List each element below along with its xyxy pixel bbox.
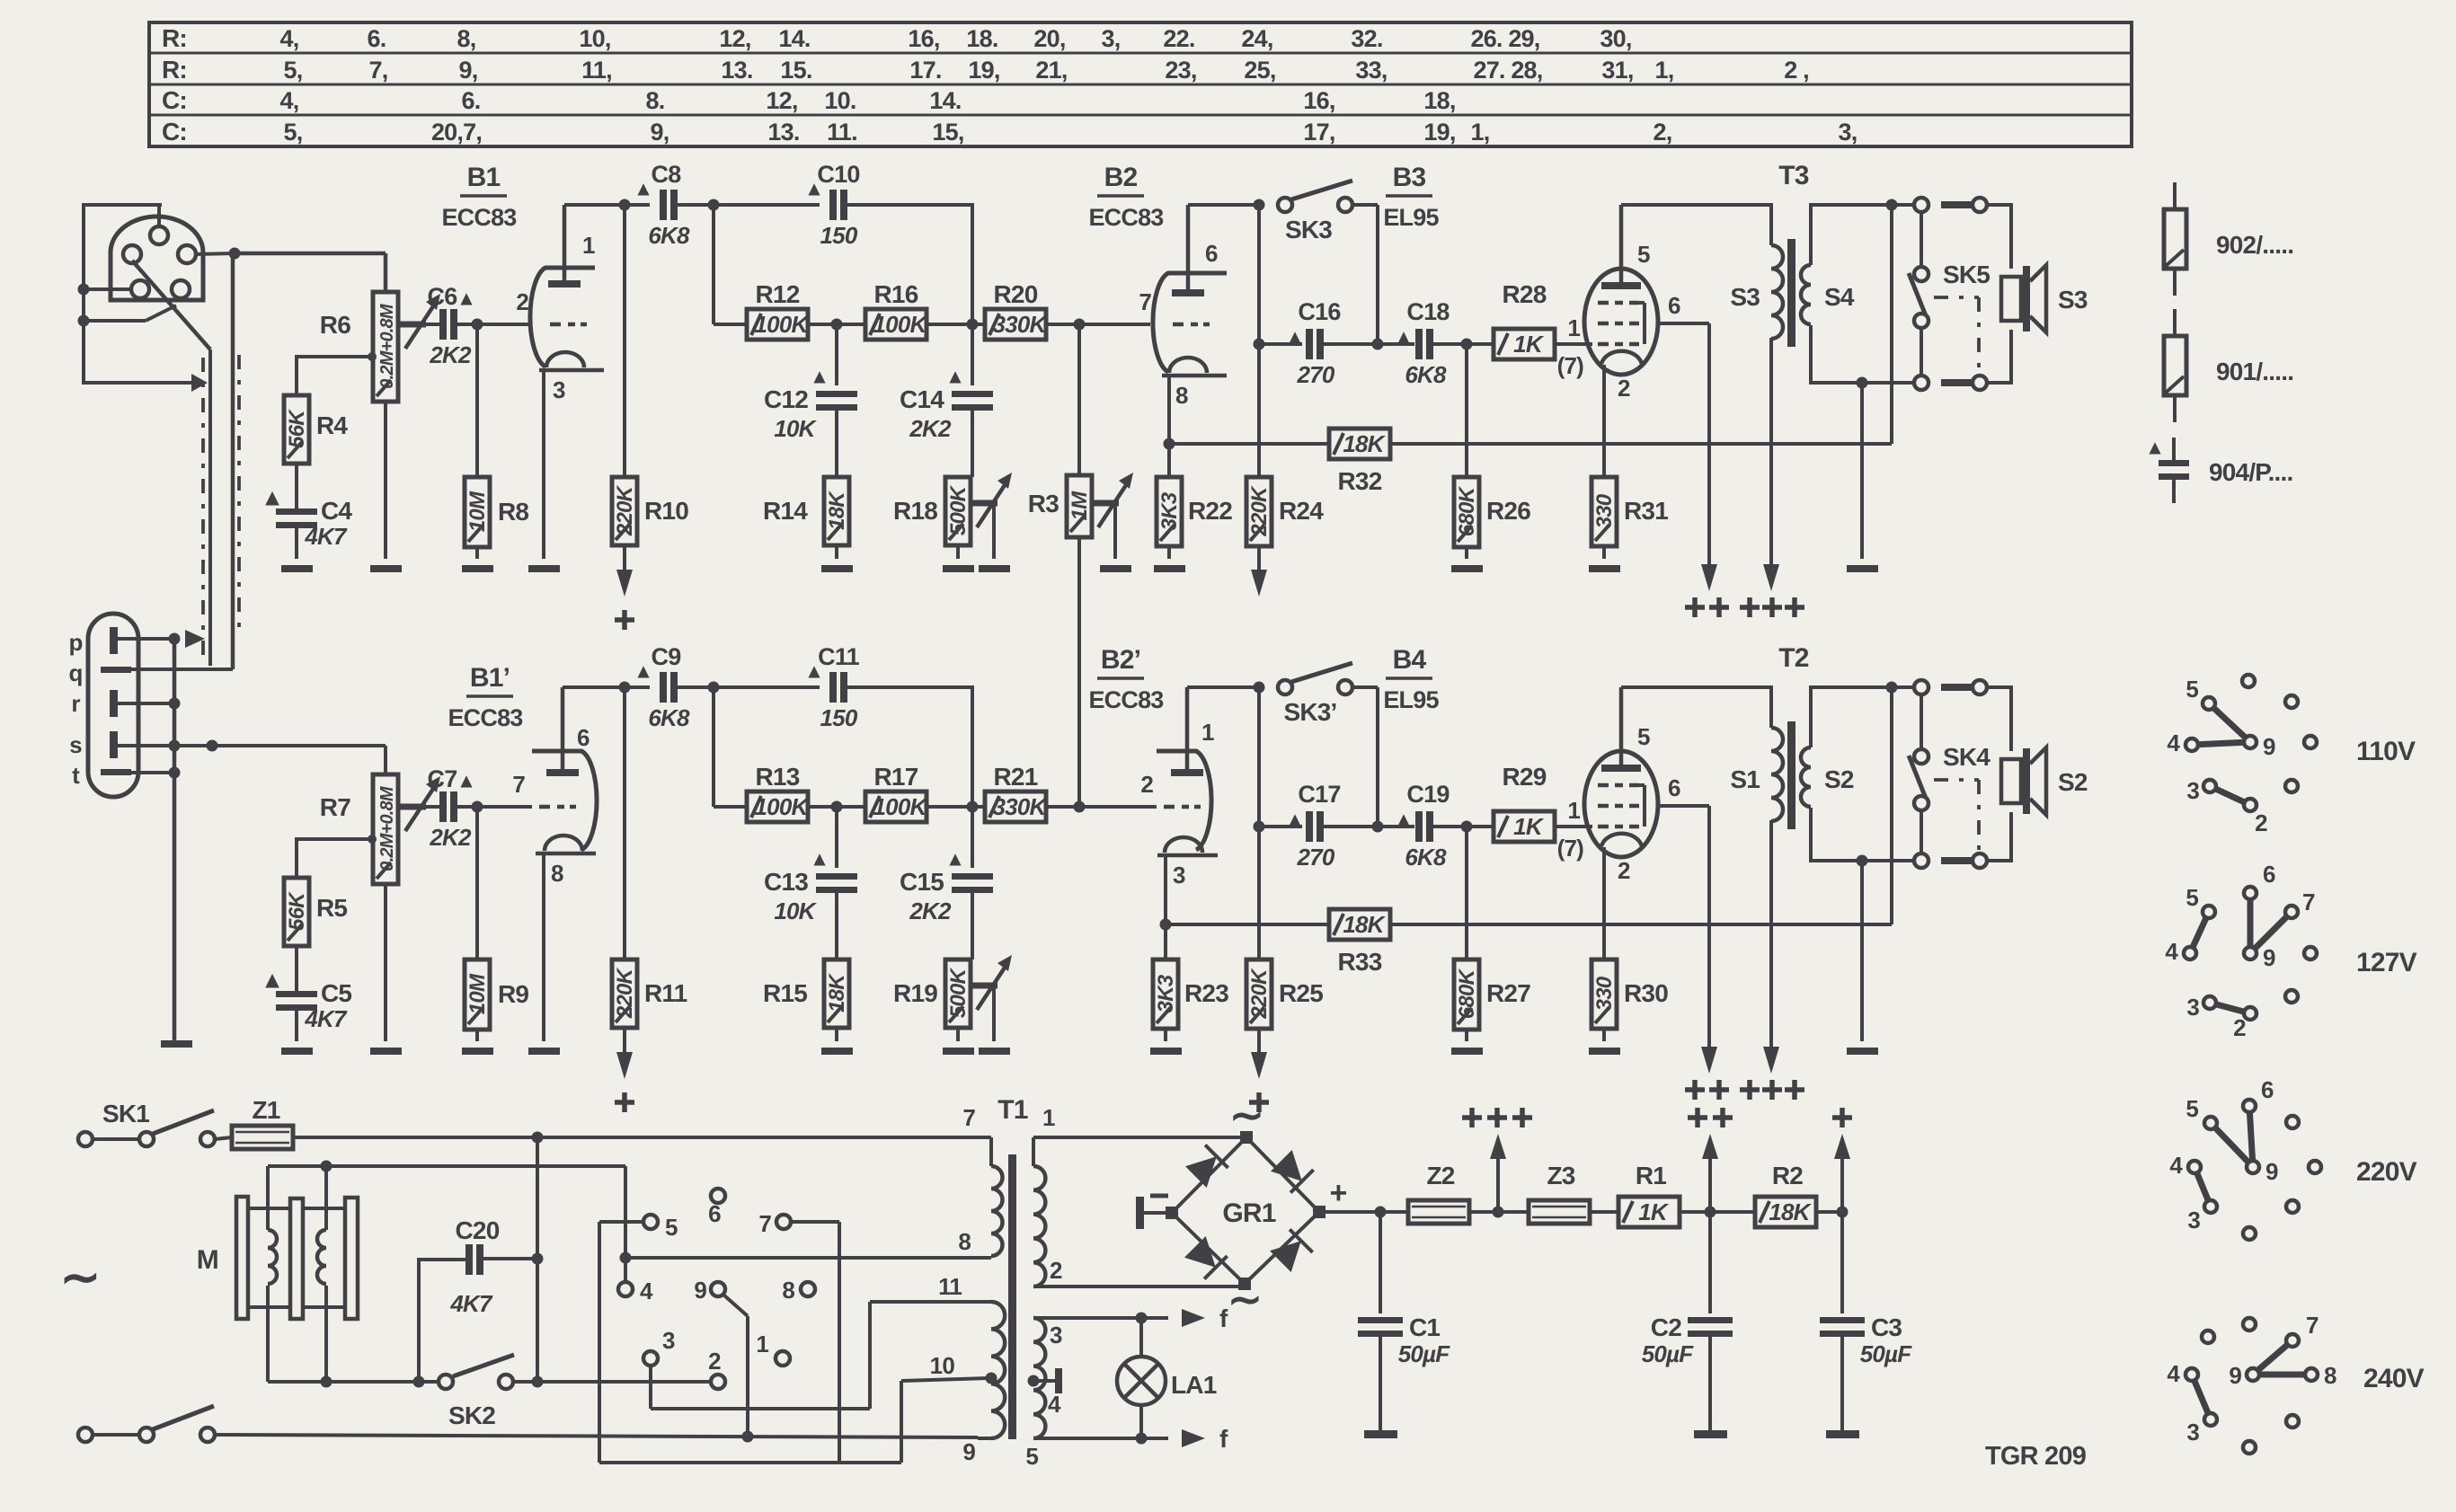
- ground under R9: [462, 1048, 493, 1055]
- B2 pin 8 label: [1175, 382, 1188, 409]
- selector terminal 6: [708, 1189, 725, 1227]
- resistor R17: [865, 791, 928, 822]
- svg-text:R10: R10: [644, 497, 688, 525]
- R29 label: [1503, 763, 1547, 791]
- C8 value: [648, 222, 690, 249]
- wire R6 wiper to C6: [426, 323, 439, 326]
- T3 secondary S4: [1801, 265, 1811, 324]
- svg-text:4: 4: [2165, 938, 2178, 965]
- svg-text:5: 5: [1025, 1443, 1038, 1470]
- svg-text:R19: R19: [893, 979, 937, 1007]
- GR1 diode upper-left: [1185, 1145, 1228, 1188]
- J2 common vertical to ground: [173, 639, 177, 1040]
- wire to R9: [475, 807, 479, 959]
- wire to R26: [1465, 344, 1468, 477]
- wire to R24: [1257, 344, 1261, 477]
- ground under R23: [1150, 1048, 1182, 1055]
- svg-text:C6: C6: [428, 283, 458, 310]
- S4 label: [1824, 283, 1855, 311]
- wire B2' anode to SK3': [1187, 682, 1265, 694]
- B3 pin 6 wire: [1657, 292, 1709, 323]
- +++ label under T3: [1740, 597, 1804, 617]
- 127V label: [2356, 948, 2417, 977]
- wire R16-R20: [927, 319, 987, 331]
- wire R1 to R2: [1680, 1207, 1755, 1218]
- svg-text:C15: C15: [900, 868, 944, 896]
- J2 pin q: [101, 667, 233, 673]
- wire R7 wiper to C7: [426, 805, 439, 809]
- R4 label: [316, 411, 348, 439]
- svg-text:6.: 6.: [368, 25, 386, 52]
- resistor R15: [824, 959, 849, 1028]
- S2 bottom wire: [1811, 808, 1914, 867]
- B4 grid g3 dashes: [1598, 783, 1639, 788]
- svg-text:R9: R9: [498, 980, 528, 1008]
- transformer T2 label: [1778, 643, 1809, 673]
- svg-text:3: 3: [2186, 777, 2199, 804]
- lamp LA1: [1117, 1318, 1166, 1438]
- C2 label: [1651, 1313, 1681, 1341]
- svg-text:9: 9: [694, 1277, 706, 1304]
- svg-text:R28: R28: [1503, 280, 1547, 308]
- R30 label: [1624, 979, 1668, 1007]
- resistor R11: [612, 959, 637, 1028]
- R24 arrow to supply: [1251, 546, 1267, 597]
- capacitor C9: [660, 672, 678, 703]
- R22 label: [1188, 497, 1232, 525]
- svg-text:10M: 10M: [465, 973, 490, 1014]
- switch SK3: [1278, 181, 1378, 212]
- R23 label: [1184, 979, 1228, 1007]
- input DIN connector J1 outer wire and plug arrow: [84, 205, 208, 392]
- R33 label: [1338, 948, 1382, 976]
- ground under R27: [1451, 1048, 1483, 1055]
- resistor R25: [1246, 959, 1272, 1029]
- T1 secondary HT: [1033, 1104, 1055, 1287]
- selector terminal 8: [782, 1277, 815, 1304]
- wire C1 to ground: [1379, 1337, 1382, 1430]
- capacitor C8: [660, 190, 678, 220]
- SK4 label: [1943, 743, 1991, 771]
- selector riser to T1 pin10: [901, 1378, 989, 1463]
- svg-text:2K2: 2K2: [429, 341, 472, 368]
- C10 value: [820, 222, 858, 249]
- svg-text:4,: 4,: [280, 87, 299, 114]
- ground under R8: [462, 565, 493, 572]
- svg-text:C:: C:: [162, 86, 187, 114]
- svg-text:5,: 5,: [284, 57, 303, 84]
- B4 pin1 label: [1567, 797, 1580, 824]
- wire R19 elem ground: [956, 1028, 960, 1041]
- ground under R19 wiper: [979, 1048, 1010, 1055]
- svg-text:S3: S3: [2058, 286, 2088, 314]
- B2 grid dashes: [1173, 323, 1210, 327]
- J1 pin left-lower: [78, 280, 150, 298]
- wire SK3' branch down: [1254, 687, 1265, 833]
- wire R7 to ground: [384, 884, 387, 1041]
- wire C18 to R28: [1433, 339, 1495, 350]
- B1' pin 8 label: [551, 860, 563, 887]
- B2' pin 2 label: [1140, 771, 1153, 798]
- S2 speaker label: [2058, 768, 2088, 796]
- svg-text:8: 8: [1175, 382, 1188, 409]
- SK3' label: [1283, 698, 1336, 726]
- C12 label: [764, 385, 808, 413]
- B1' cathode: [536, 836, 596, 853]
- svg-text:500K: 500K: [946, 484, 971, 535]
- B3 envelope: [1584, 269, 1658, 375]
- C4 label: [321, 497, 352, 525]
- wire R12 lead: [714, 323, 747, 326]
- svg-text:6K8: 6K8: [1405, 844, 1447, 871]
- svg-text:3: 3: [2187, 1207, 2200, 1233]
- capacitor C3: [1820, 1317, 1865, 1337]
- wire to R8: [475, 324, 479, 477]
- J1 pin right-lower: [172, 280, 190, 298]
- svg-text:R23: R23: [1184, 979, 1228, 1007]
- C2 value: [1642, 1340, 1695, 1367]
- B3 pin1 label: [1567, 314, 1580, 341]
- T2 primary S1: [1771, 728, 1783, 821]
- capacitor C2: [1688, 1317, 1733, 1337]
- svg-text:22.: 22.: [1163, 25, 1194, 52]
- wire R5 to C5: [295, 946, 298, 991]
- svg-text:23,: 23,: [1165, 57, 1196, 84]
- wire C7 to B1' grid: [457, 801, 532, 813]
- resistor R23: [1153, 959, 1178, 1029]
- svg-text:3: 3: [1173, 862, 1185, 889]
- J2 pin s: [110, 731, 386, 758]
- svg-text:R16: R16: [874, 280, 918, 308]
- svg-text:R32: R32: [1338, 467, 1382, 495]
- svg-text:27. 28,: 27. 28,: [1474, 57, 1543, 84]
- svg-text:2: 2: [708, 1348, 721, 1375]
- resistor R10: [612, 477, 637, 545]
- wire R4 to C4: [295, 464, 298, 508]
- LA1 label: [1171, 1371, 1217, 1399]
- svg-text:5: 5: [1637, 723, 1650, 750]
- legend 901 label: [2216, 358, 2293, 385]
- resistor R2: [1755, 1197, 1816, 1227]
- wire R30 ground: [1602, 1029, 1606, 1041]
- S2 label: [1824, 765, 1854, 793]
- svg-text:6: 6: [2261, 1076, 2274, 1103]
- svg-text:220K: 220K: [1247, 968, 1272, 1020]
- wire C4 to ground: [295, 528, 298, 559]
- resistor R29: [1494, 811, 1555, 842]
- Z2 label: [1426, 1162, 1454, 1189]
- svg-text:SK2: SK2: [448, 1401, 495, 1429]
- 110V label: [2356, 737, 2416, 766]
- wire Z3 to R1: [1589, 1210, 1618, 1214]
- svg-text:S4: S4: [1824, 283, 1855, 311]
- B1 pin 2 label: [516, 288, 528, 315]
- SK4 terminal circles bottom: [1914, 853, 1987, 868]
- J2 pin p: [110, 627, 169, 654]
- GR1 ac bottom label: [1228, 1276, 1262, 1322]
- selector terminal 5: [599, 1214, 678, 1241]
- C5 label: [321, 979, 351, 1007]
- ground under R22: [1154, 565, 1185, 572]
- switch SK2: [439, 1355, 712, 1389]
- svg-text:R25: R25: [1279, 979, 1323, 1007]
- R7 wiper arrow: [399, 776, 440, 831]
- svg-text:10,: 10,: [579, 25, 610, 52]
- T1 core: [1008, 1154, 1016, 1439]
- svg-text:Z1: Z1: [252, 1096, 279, 1124]
- wire C2 to ground: [1708, 1337, 1712, 1430]
- potentiometer R18: [945, 477, 971, 545]
- svg-text:10.: 10.: [824, 87, 856, 114]
- R25 label: [1279, 979, 1323, 1007]
- svg-text:6: 6: [708, 1200, 721, 1227]
- resistor R9: [465, 959, 490, 1030]
- svg-text:330K: 330K: [993, 311, 1049, 338]
- svg-text:17,: 17,: [1303, 119, 1334, 146]
- SK3 label: [1285, 216, 1332, 243]
- B4 cathode lead: [1602, 847, 1606, 959]
- ground under R26: [1451, 565, 1483, 572]
- B1 grid dashes: [550, 323, 587, 327]
- legend resistor 902: [2164, 182, 2186, 296]
- svg-text:C1: C1: [1409, 1313, 1440, 1341]
- Z3 label: [1547, 1162, 1574, 1189]
- svg-text:(7): (7): [1557, 352, 1584, 379]
- B2 envelope: [1153, 273, 1227, 372]
- svg-text:330: 330: [1592, 976, 1617, 1011]
- wire R18 elem ground: [956, 545, 960, 559]
- svg-text:32.: 32.: [1351, 25, 1382, 52]
- resistor R30: [1592, 959, 1617, 1029]
- table row labels and numbers: [162, 24, 1857, 146]
- tube B4 label: [1383, 645, 1439, 713]
- wire R27 ground: [1465, 1030, 1468, 1041]
- svg-text:R14: R14: [763, 497, 808, 525]
- motor top wire: [268, 1161, 625, 1172]
- svg-text:150: 150: [820, 704, 858, 731]
- svg-text:680K: 680K: [1455, 485, 1479, 536]
- legend 904 label: [2209, 458, 2292, 486]
- capacitor C18: [1415, 329, 1433, 359]
- wire C10 to junction: [847, 205, 972, 324]
- svg-text:5: 5: [665, 1214, 678, 1241]
- B3 grid g1 dashes: [1598, 342, 1639, 347]
- resistor R27: [1454, 959, 1479, 1030]
- J1 shield stub: [78, 305, 177, 327]
- motor M links: [248, 1208, 345, 1307]
- svg-text:330K: 330K: [993, 793, 1049, 820]
- ++ label under B4: [1685, 1080, 1729, 1100]
- svg-text:R12: R12: [756, 280, 800, 308]
- wire to R27: [1465, 827, 1468, 959]
- svg-text:p: p: [68, 629, 82, 656]
- C6 label: [428, 283, 473, 310]
- wire to C17: [1259, 825, 1302, 828]
- C11 value: [820, 704, 858, 731]
- C20 label: [456, 1216, 500, 1244]
- C19 value: [1405, 844, 1447, 871]
- C20 value: [449, 1290, 493, 1317]
- svg-text:5: 5: [2186, 884, 2198, 911]
- wire R26 ground: [1465, 547, 1468, 559]
- svg-text:EL95: EL95: [1383, 204, 1439, 231]
- 220V label: [2356, 1157, 2417, 1187]
- C16 value: [1297, 361, 1335, 388]
- svg-text:SK1: SK1: [102, 1100, 149, 1127]
- wire C3 to ground: [1840, 1337, 1844, 1430]
- R6 label: [320, 311, 350, 339]
- GR1 plus label: [1329, 1176, 1346, 1210]
- switch SK1 second pole: [78, 1406, 215, 1442]
- svg-text:26. 29,: 26. 29,: [1471, 25, 1540, 52]
- B1 cathode to ground: [542, 370, 545, 559]
- wire R13 lead: [714, 805, 747, 809]
- ground under C3: [1826, 1430, 1859, 1438]
- svg-text:9: 9: [2263, 733, 2275, 760]
- svg-text:ECC83: ECC83: [448, 704, 523, 731]
- svg-text:31,: 31,: [1601, 57, 1633, 84]
- S1 label: [1730, 765, 1760, 793]
- fuse Z2: [1408, 1200, 1469, 1224]
- svg-text:C14: C14: [900, 385, 944, 413]
- R18 wiper: [971, 473, 1012, 559]
- svg-text:33,: 33,: [1355, 57, 1387, 84]
- wire C12 branch: [835, 324, 838, 385]
- capacitor C11: [829, 672, 847, 703]
- svg-text:0.2M+0.8M: 0.2M+0.8M: [377, 303, 397, 389]
- svg-text:EL95: EL95: [1383, 686, 1439, 713]
- C3 value: [1860, 1340, 1913, 1367]
- svg-text:C9: C9: [652, 643, 682, 670]
- wire C1 node down: [1379, 1212, 1382, 1313]
- C17 value: [1297, 844, 1335, 871]
- R9 label: [498, 980, 528, 1008]
- R11 arrow to supply: [615, 1028, 634, 1112]
- svg-text:7: 7: [2306, 1312, 2319, 1339]
- C13 label: [764, 868, 808, 896]
- svg-text:50µF: 50µF: [1860, 1340, 1913, 1367]
- wire down to R12: [712, 205, 715, 324]
- selector terminal 1: [756, 1331, 790, 1366]
- svg-text:4K7: 4K7: [449, 1290, 493, 1317]
- selector terminal 3: [643, 1327, 675, 1409]
- B2' pin 3 label: [1173, 862, 1185, 889]
- svg-text:C2: C2: [1651, 1313, 1681, 1341]
- svg-text:25,: 25,: [1244, 57, 1275, 84]
- GR1 diode lower-left: [1184, 1236, 1228, 1279]
- C6 value: [429, 341, 472, 368]
- legend resistor 901: [2164, 309, 2186, 422]
- svg-text:127V: 127V: [2356, 948, 2417, 977]
- J2 labels p q r s t: [68, 629, 82, 789]
- TGR209 title: [1985, 1442, 2087, 1471]
- B1 anode: [548, 205, 581, 287]
- C5 value: [304, 1005, 348, 1032]
- T1 pin8 lead: [958, 1228, 991, 1258]
- svg-text:10: 10: [930, 1352, 955, 1379]
- svg-text:7: 7: [962, 1104, 975, 1131]
- svg-text:18K: 18K: [825, 491, 849, 530]
- B1' pin 7 label: [512, 771, 525, 798]
- fuse Z1: [232, 1126, 293, 1149]
- R15 label: [763, 979, 807, 1007]
- R19 label: [893, 979, 937, 1007]
- wire C3 node down: [1840, 1212, 1844, 1313]
- svg-text:1: 1: [1567, 797, 1580, 824]
- svg-text:8: 8: [551, 860, 563, 887]
- R10 arrow to supply: [615, 545, 634, 630]
- Z1 label: [252, 1096, 279, 1124]
- svg-text:R2: R2: [1772, 1162, 1803, 1189]
- svg-text:220V: 220V: [2356, 1157, 2417, 1187]
- svg-text:M: M: [197, 1245, 218, 1275]
- J2 pin r: [110, 690, 181, 717]
- selector terminal 4: [618, 1258, 653, 1304]
- svg-text:r: r: [71, 690, 80, 717]
- wire R29 to B4: [1555, 825, 1592, 828]
- mains neutral wire: [215, 1431, 978, 1443]
- tube B3 label: [1383, 163, 1439, 231]
- wire C17-C19: [1324, 825, 1414, 828]
- resistor R31: [1592, 477, 1617, 546]
- svg-text:7: 7: [1139, 288, 1151, 315]
- supply arrow ++: [1688, 1108, 1733, 1212]
- ground under C2: [1694, 1430, 1727, 1438]
- R32 label: [1338, 467, 1382, 495]
- svg-text:4: 4: [640, 1278, 653, 1304]
- R16 label: [874, 280, 918, 308]
- 240V label: [2363, 1364, 2425, 1393]
- R3 label: [1028, 490, 1059, 517]
- svg-text:270: 270: [1297, 844, 1335, 871]
- svg-text:7,: 7,: [369, 57, 388, 84]
- selector wire to T1 pin8: [625, 1256, 991, 1260]
- svg-text:R17: R17: [874, 763, 918, 791]
- svg-text:C8: C8: [652, 161, 682, 188]
- wire C19 to R29: [1433, 821, 1495, 833]
- svg-text:TGR 209: TGR 209: [1985, 1442, 2087, 1471]
- wire B1' anode row: [563, 682, 650, 694]
- svg-text:9,: 9,: [459, 57, 478, 84]
- R5 label: [316, 894, 347, 922]
- svg-text:R11: R11: [644, 979, 687, 1007]
- feedback riser lower: [1890, 687, 1893, 924]
- wire C13 branch: [835, 807, 838, 868]
- T1 pin4 chassis: [1028, 1368, 1063, 1418]
- B3 pin7 label: [1557, 352, 1584, 379]
- svg-text:100K: 100K: [755, 311, 811, 338]
- B3 pin 2 label: [1618, 375, 1630, 402]
- svg-text:R30: R30: [1624, 979, 1668, 1007]
- svg-text:19,: 19,: [968, 57, 999, 84]
- B4 grid g1 dashes: [1598, 825, 1639, 829]
- wire to speaker S3: [1987, 205, 2011, 383]
- svg-text:12,: 12,: [766, 87, 797, 114]
- B2 cathode: [1162, 358, 1227, 376]
- svg-text:C4: C4: [321, 497, 352, 525]
- R14 label: [763, 497, 808, 525]
- svg-text:3: 3: [662, 1327, 675, 1354]
- legend 902 label: [2216, 231, 2293, 259]
- svg-text:2K2: 2K2: [909, 897, 952, 924]
- svg-text:R24: R24: [1279, 497, 1324, 525]
- wire R6 to ground: [384, 402, 387, 559]
- J1 pin top: [150, 205, 168, 244]
- capacitor C13: [816, 873, 857, 893]
- wire B2 anode to SK3: [1188, 199, 1265, 211]
- wire R9 to ground: [475, 1030, 479, 1041]
- ++ label under B3: [1685, 597, 1729, 617]
